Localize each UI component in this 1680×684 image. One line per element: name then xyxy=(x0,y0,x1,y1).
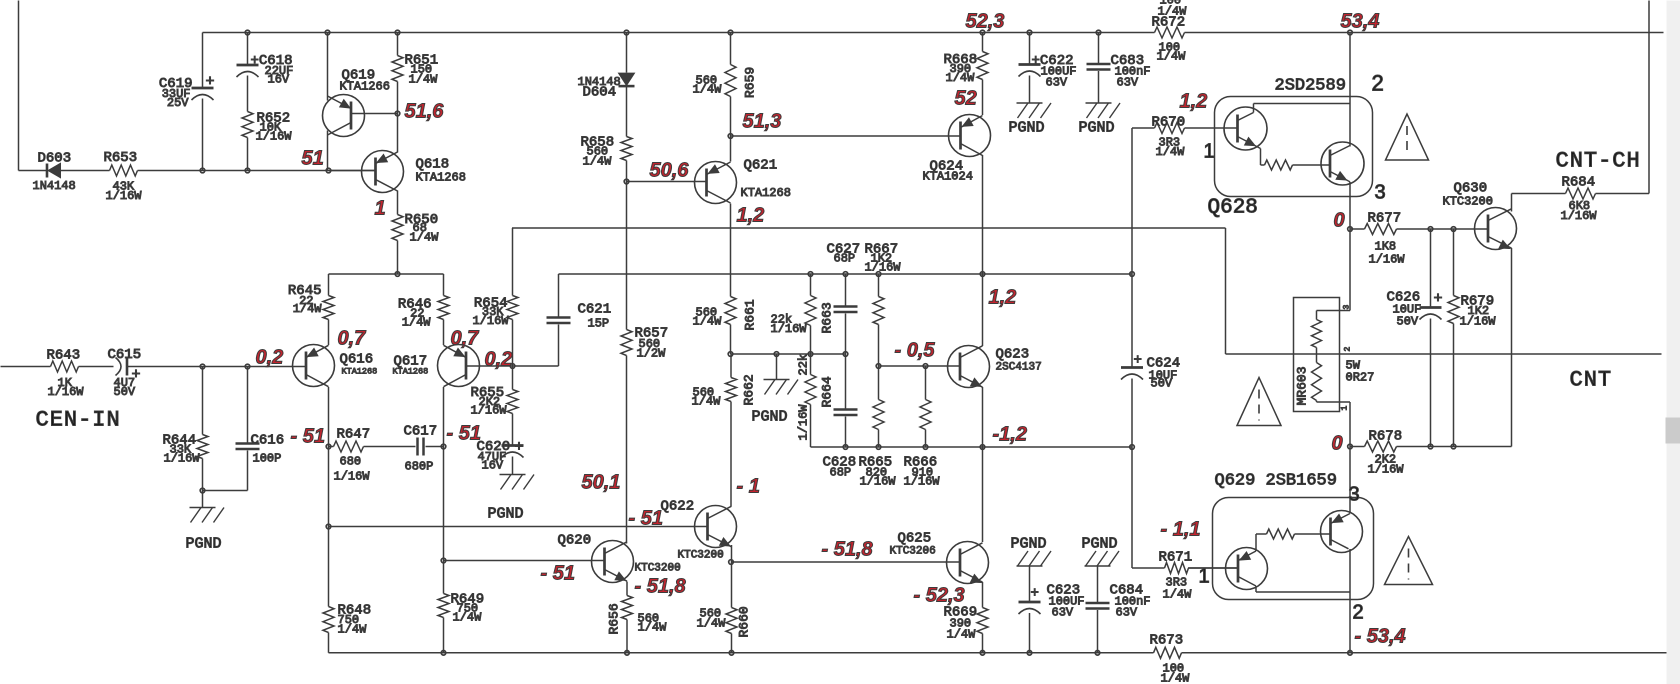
svg-text:- 1,1: - 1,1 xyxy=(1161,519,1201,541)
svg-text:R647: R647 xyxy=(337,427,371,443)
svg-text:1,2: 1,2 xyxy=(989,287,1017,309)
svg-text:15P: 15P xyxy=(588,317,610,331)
svg-text:R660: R660 xyxy=(737,606,752,637)
svg-text:- 51: - 51 xyxy=(447,423,481,445)
svg-text:C615: C615 xyxy=(108,347,142,363)
svg-text:KTA1266: KTA1266 xyxy=(340,80,390,94)
svg-text:KTA1024: KTA1024 xyxy=(923,170,973,184)
svg-text:KTA1268: KTA1268 xyxy=(393,367,429,377)
svg-text:63V: 63V xyxy=(1052,606,1074,620)
svg-text:Q629 2SB1659: Q629 2SB1659 xyxy=(1215,472,1337,491)
svg-text:0R27: 0R27 xyxy=(1346,371,1375,385)
svg-text:1N4148: 1N4148 xyxy=(33,179,76,193)
svg-text:52,3: 52,3 xyxy=(966,11,1005,33)
svg-text:1/4W: 1/4W xyxy=(947,628,977,642)
svg-text:- 53,4: - 53,4 xyxy=(1355,626,1406,648)
svg-text:Q628: Q628 xyxy=(1208,197,1258,220)
svg-text:1/16W: 1/16W xyxy=(1460,315,1497,329)
svg-text:68P: 68P xyxy=(834,252,856,266)
svg-text:1/4W: 1/4W xyxy=(338,623,368,637)
svg-text:R653: R653 xyxy=(104,150,138,166)
svg-text:-1,2: -1,2 xyxy=(993,424,1027,446)
svg-text:0: 0 xyxy=(1332,433,1343,455)
svg-text:- 51,8: - 51,8 xyxy=(822,539,874,561)
svg-text:1/16W: 1/16W xyxy=(164,452,201,466)
svg-text:Q622: Q622 xyxy=(661,499,695,515)
svg-text:2: 2 xyxy=(1372,71,1384,96)
svg-text:R672: R672 xyxy=(1152,15,1186,31)
svg-text:0: 0 xyxy=(1334,210,1345,232)
svg-text:1/16W: 1/16W xyxy=(860,475,897,489)
svg-text:R664: R664 xyxy=(820,376,835,407)
svg-text:1/4W: 1/4W xyxy=(453,611,483,625)
svg-text:1/16W: 1/16W xyxy=(334,470,371,484)
svg-text:2SC4137: 2SC4137 xyxy=(996,362,1042,374)
svg-text:1/4W: 1/4W xyxy=(410,231,440,245)
svg-text:1/4W: 1/4W xyxy=(1163,588,1193,602)
svg-text:KTC3200: KTC3200 xyxy=(1443,195,1493,209)
svg-text:+: + xyxy=(132,367,141,384)
svg-text:R677: R677 xyxy=(1368,211,1402,227)
svg-text:53,4: 53,4 xyxy=(1341,11,1380,33)
svg-text:16V: 16V xyxy=(268,73,290,87)
svg-text:1/16W: 1/16W xyxy=(904,475,941,489)
svg-text:- 51: - 51 xyxy=(629,508,663,530)
svg-text:1/16W: 1/16W xyxy=(771,322,808,336)
svg-text:1,2: 1,2 xyxy=(1180,91,1208,113)
svg-text:R659: R659 xyxy=(743,67,758,98)
svg-text:1,2: 1,2 xyxy=(737,205,765,227)
svg-text:1/16W: 1/16W xyxy=(1369,253,1406,267)
svg-text:+: + xyxy=(1434,291,1443,308)
svg-text:KTC3200: KTC3200 xyxy=(678,550,724,562)
svg-text:+: + xyxy=(1031,586,1039,602)
svg-text:2: 2 xyxy=(1344,347,1353,352)
svg-text:3: 3 xyxy=(1349,484,1360,506)
svg-text:1/4W: 1/4W xyxy=(692,395,722,409)
svg-text:- 52,3: - 52,3 xyxy=(914,585,965,607)
svg-text:PGND: PGND xyxy=(186,536,222,553)
svg-text:- 51,8: - 51,8 xyxy=(635,576,687,598)
svg-text:1: 1 xyxy=(1341,406,1350,411)
svg-text:16V: 16V xyxy=(482,459,504,473)
svg-text:50V: 50V xyxy=(1151,377,1173,391)
svg-text:51,6: 51,6 xyxy=(405,101,445,123)
svg-text:0,2: 0,2 xyxy=(256,347,284,369)
svg-text:- 51: - 51 xyxy=(291,426,325,448)
svg-text:1: 1 xyxy=(1199,566,1210,588)
svg-text:1/16W: 1/16W xyxy=(48,385,85,399)
svg-text:1: 1 xyxy=(1204,141,1215,163)
svg-text:1/4W: 1/4W xyxy=(409,73,439,87)
svg-text:1/4W: 1/4W xyxy=(402,316,432,330)
svg-text:1/16W: 1/16W xyxy=(106,189,143,203)
svg-text:1/16W: 1/16W xyxy=(1561,209,1598,223)
svg-text:- 0,5: - 0,5 xyxy=(895,340,936,362)
svg-text:1: 1 xyxy=(375,198,386,220)
svg-text:C616: C616 xyxy=(251,433,285,449)
svg-text:68P: 68P xyxy=(830,466,852,480)
svg-text:50V: 50V xyxy=(114,385,136,399)
svg-text:R673: R673 xyxy=(1150,633,1184,649)
svg-text:CNT-CH: CNT-CH xyxy=(1556,149,1641,174)
svg-text:D604: D604 xyxy=(583,85,617,101)
svg-text:1K8: 1K8 xyxy=(1375,240,1397,254)
svg-text:3: 3 xyxy=(1375,182,1386,204)
svg-text:25V: 25V xyxy=(167,96,189,110)
svg-text:R661: R661 xyxy=(743,299,758,330)
svg-text:1/4W: 1/4W xyxy=(697,617,727,631)
svg-text:Q620: Q620 xyxy=(558,533,592,549)
svg-text:22k: 22k xyxy=(797,354,811,376)
svg-text:1/16W: 1/16W xyxy=(472,314,509,328)
svg-text:50,6: 50,6 xyxy=(650,160,690,182)
svg-text:52: 52 xyxy=(955,88,977,110)
svg-text:1/16W: 1/16W xyxy=(865,261,902,275)
svg-text:- 51: - 51 xyxy=(541,563,575,585)
svg-text:KTC3206: KTC3206 xyxy=(890,546,936,558)
svg-text:1/4W: 1/4W xyxy=(638,621,668,635)
svg-text:0,7: 0,7 xyxy=(451,328,480,350)
svg-text:63V: 63V xyxy=(1117,76,1139,90)
svg-text:R671: R671 xyxy=(1159,550,1193,566)
svg-text:R662: R662 xyxy=(742,374,757,405)
svg-text:1/4W: 1/4W xyxy=(946,71,976,85)
svg-text:KTC3200: KTC3200 xyxy=(635,563,681,575)
svg-text:0,7: 0,7 xyxy=(338,328,367,350)
svg-text:D603: D603 xyxy=(38,151,72,167)
svg-text:C617: C617 xyxy=(404,424,438,440)
svg-text:R643: R643 xyxy=(47,348,81,364)
svg-text:PGND: PGND xyxy=(1079,120,1115,137)
svg-text:Q625: Q625 xyxy=(898,531,932,547)
svg-text:1/2W: 1/2W xyxy=(637,347,667,361)
svg-text:- 1: - 1 xyxy=(737,476,760,498)
svg-text:R656: R656 xyxy=(607,603,622,634)
svg-text:680: 680 xyxy=(340,455,362,469)
svg-text:50,1: 50,1 xyxy=(582,472,621,494)
svg-text:1/4W: 1/4W xyxy=(693,83,723,97)
svg-text:63V: 63V xyxy=(1046,76,1068,90)
svg-text:PGND: PGND xyxy=(1011,536,1047,553)
svg-text:1/4W: 1/4W xyxy=(1157,50,1187,64)
svg-text:3: 3 xyxy=(1343,305,1352,310)
svg-text:PGND: PGND xyxy=(752,409,788,426)
svg-text:Q621: Q621 xyxy=(744,158,778,174)
svg-text:1/16W: 1/16W xyxy=(797,404,811,441)
svg-text:C621: C621 xyxy=(578,302,612,318)
svg-text:PGND: PGND xyxy=(488,506,524,523)
svg-text:1/4W: 1/4W xyxy=(1156,145,1186,159)
svg-text:1/4W: 1/4W xyxy=(1161,672,1191,684)
svg-text:1/16W: 1/16W xyxy=(256,130,293,144)
svg-text:680P: 680P xyxy=(405,460,434,474)
svg-text:100P: 100P xyxy=(253,452,282,466)
svg-text:KTA1268: KTA1268 xyxy=(741,186,791,200)
svg-text:CNT: CNT xyxy=(1570,368,1613,393)
svg-text:1/4W: 1/4W xyxy=(293,302,323,316)
svg-text:KTA1268: KTA1268 xyxy=(416,171,466,185)
svg-text:100: 100 xyxy=(1160,0,1182,8)
svg-text:51: 51 xyxy=(302,148,324,170)
svg-text:63V: 63V xyxy=(1116,606,1138,620)
svg-text:51,3: 51,3 xyxy=(743,111,782,133)
svg-text:2: 2 xyxy=(1353,602,1364,624)
svg-text:50V: 50V xyxy=(1397,315,1419,329)
svg-text:MR603: MR603 xyxy=(1295,366,1310,405)
svg-text:1/16W: 1/16W xyxy=(1368,463,1405,477)
svg-text:1/4W: 1/4W xyxy=(693,315,723,329)
svg-text:+: + xyxy=(515,439,524,456)
svg-text:R670: R670 xyxy=(1152,115,1186,131)
svg-text:R678: R678 xyxy=(1369,429,1403,445)
svg-text:+: + xyxy=(1134,353,1142,369)
svg-text:CEN-IN: CEN-IN xyxy=(36,408,121,433)
svg-text:R684: R684 xyxy=(1562,175,1596,191)
svg-text:R663: R663 xyxy=(820,302,835,333)
svg-text:PGND: PGND xyxy=(1082,536,1118,553)
svg-text:+: + xyxy=(206,74,215,91)
svg-text:1/16W: 1/16W xyxy=(471,404,508,418)
svg-text:KTA1268: KTA1268 xyxy=(342,367,378,377)
svg-text:2SD2589: 2SD2589 xyxy=(1275,77,1346,96)
svg-text:0,2: 0,2 xyxy=(485,349,513,371)
svg-text:Q616: Q616 xyxy=(340,352,374,368)
svg-text:1/4W: 1/4W xyxy=(583,155,613,169)
svg-text:PGND: PGND xyxy=(1009,120,1045,137)
svg-text:Q623: Q623 xyxy=(996,347,1030,363)
